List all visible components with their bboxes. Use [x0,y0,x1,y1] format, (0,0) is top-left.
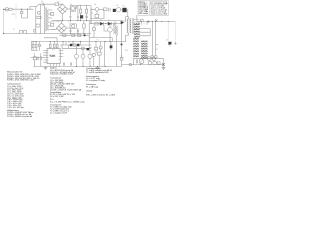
capacitor C12 [137,60,138,64]
parts list column 1 [7,70,41,118]
sub-circuit bottom wire [122,55,164,65]
resistor R12 [53,44,55,48]
wire Q7 Q8 stubs [77,46,91,66]
resistor R18b [97,52,101,55]
svg-text:T2: T2 [128,19,130,21]
svg-text:B1: B1 [58,2,60,4]
wire bridge to Q1 [68,8,71,10]
diode D12 dark [110,45,113,48]
svg-text:D7,D8 = SB360 schottky 3A: D7,D8 = SB360 schottky 3A [7,115,33,118]
diode D1 dark [113,9,116,12]
wire rung row2 [62,45,91,48]
resistor R22 [34,30,36,33]
diode D15 on bus [155,20,157,22]
wire T1 top link [52,21,62,23]
svg-text:Q2: Q2 [116,5,118,7]
transistor Q12 [152,57,156,61]
resistor R17 [94,47,97,50]
resistor R1 [80,9,82,13]
wire Q2 to T2 [121,10,128,17]
parts list column 3 [86,67,116,97]
capacitor C18 dark [84,34,86,36]
wire light rails far right [168,21,175,42]
wire y37.6 [89,38,112,42]
wire Q6 right [97,9,104,14]
transistor Q14 [153,61,157,65]
transistor Q11 [147,57,151,61]
wire vertical x91 [90,9,92,24]
resistor R19 [33,57,36,60]
ground left [44,66,48,69]
wire diode row [61,42,92,46]
wire verticals from bus [141,21,156,55]
rail vertical right [39,4,41,33]
capacitor C16 [63,63,64,66]
resistor R3 [83,24,86,28]
thermistor NTC1 [55,3,59,6]
connector wire labels column B [141,41,148,59]
resistor R7 [92,28,95,30]
capacitor C3 [70,11,72,21]
svg-text:D3: D3 [100,20,102,22]
svg-text:Weerstanden 5%:: Weerstanden 5%: [7,70,23,73]
svg-text:T3: T3 [97,40,99,42]
svg-text:C14 = 47u 50V bip: C14 = 47u 50V bip [7,107,25,109]
svg-text:F1 = 4A traag: F1 = 4A traag [86,85,98,88]
svg-text:D12,D13 = 1N5822 schott: D12,D13 = 1N5822 schott [50,73,74,76]
wire to cap [39,3,42,5]
inductor L3 line filter bottom [23,31,26,34]
wire top step [30,7,36,10]
capacitor C17 [70,63,71,66]
IC1 left pins [44,50,63,62]
LED D7 [129,63,131,65]
transistor Q10 [88,54,92,58]
resistor R21 [36,24,40,27]
transistor Q15 [99,46,102,49]
resistor R8 [157,62,160,64]
wire AC line top [12,8,33,10]
wire to NTC [44,3,55,5]
schematic tiny labels [12,1,169,52]
wire left bottom stubs [35,54,41,67]
capacitor C9 [115,22,116,26]
diode D9 dark [70,44,73,46]
wire vertical x89 [88,21,90,42]
transistor Q13 [148,61,152,65]
wire snubber row y35 [60,34,90,36]
svg-text:C1: C1 [41,1,43,3]
svg-text:Q1: Q1 [70,4,72,6]
diode D2 dark pair [122,8,126,12]
svg-text:IC1 = TL494 PWM, IC2 = LM339 c: IC1 = TL494 PWM, IC2 = LM339 comp [50,101,85,103]
svg-text:Overig:: Overig: [86,90,93,92]
wire left of IC [31,42,44,58]
capacitor C8 [95,14,99,18]
transistor Q8 [81,54,85,58]
capacitor C5 electrolytic [80,5,83,21]
wire R11-13 stubs [50,42,57,45]
resistor R16 [73,44,76,46]
diode D11 dark [87,48,90,50]
wire Q9 stubs [89,42,111,67]
diode D10 dark [77,44,80,46]
resistor R26 [120,57,123,60]
capacitor C6 [70,28,72,33]
resistor R28 [72,34,75,36]
transistor Q6 [95,8,99,12]
capacitor C15 [109,8,110,11]
transistor Q3 [108,27,113,32]
wire top right bus [137,15,175,21]
transformer T2 main [127,17,138,36]
resistor R4 [104,8,108,11]
wire T1 to bridge2 [52,28,57,29]
transistor Q7 [75,54,79,58]
chassis dashed boundary [15,4,17,20]
diode D14 on bus [148,20,150,22]
wire AC neutral bottom [4,33,45,35]
transformer T1 standby [44,4,52,33]
svg-text:R7,R8 = 470k 1/4W R21 = 4k7: R7,R8 = 470k 1/4W R21 = 4k7 [7,80,35,82]
wire mid rail [52,20,122,22]
capacitor C4 [77,5,79,21]
svg-text:Z4 = 6V2 1,3W: Z4 = 6V2 1,3W [50,96,64,98]
thermistor X mark [163,64,165,66]
resistor R25 on bus [140,19,143,21]
transformer T3 driver [114,24,118,67]
wire main rail y41.5 [32,41,126,43]
capacitor C14 [37,57,38,60]
diode D3 dark [100,22,103,25]
resistor R14 [32,44,34,48]
svg-text:L1 = ringkern 2x27t: L1 = ringkern 2x27t [50,112,68,115]
diode D8 [38,44,40,46]
capacitor C1 X-cap [20,9,27,18]
svg-text:NTC = 2R5 inrush lim S1 = 230: NTC = 2R5 inrush lim S1 = 230V [86,95,116,97]
svg-text:IC3: IC3 [68,21,71,23]
wire stub x155 jog [156,43,159,45]
capacitor C2 [42,3,44,6]
svg-text:PC VOEDING 200W: PC VOEDING 200W [151,3,168,5]
title block text [138,1,168,16]
resistor R23 [51,12,54,15]
resistor R2 [86,9,88,13]
inductor L2 line filter top [19,31,22,34]
wire Q1 to right [76,6,92,24]
title block table [138,1,168,16]
svg-text:IC1: IC1 [52,50,55,52]
bridge rectifier B1 [58,4,68,14]
junction dot x121 [121,44,123,46]
svg-text:Q6: Q6 [94,4,96,6]
svg-text:B2: B2 [57,21,59,23]
ground right [162,66,165,70]
resistor R24 [51,23,54,26]
rail vertical left [35,7,37,34]
svg-text:TL494: TL494 [50,56,57,58]
svg-text:z: z [147,13,148,15]
ground middle [96,66,100,69]
svg-text:zwart = massa GND: zwart = massa GND [151,12,168,15]
resistor R6 [95,22,98,25]
capacitor C13 [40,57,41,60]
transistor Q9 [92,53,95,56]
diode D6 dark [168,41,172,46]
sub-circuit top wire [134,57,164,59]
svg-text:D4: D4 [108,20,110,22]
svg-text:D5: D5 [123,6,125,8]
transistor Q5 standby [37,11,40,14]
wire x121 vertical [121,45,123,59]
wire to bridge [59,3,63,5]
wire x104.7 vertical [104,42,106,67]
capacitor C11 tick [174,42,176,44]
fuse F2 circle [151,56,154,59]
svg-text:T2 = ATX hoofdtrafo EI33: T2 = ATX hoofdtrafo EI33 [86,71,109,74]
capacitor C7 [77,28,79,33]
wire stub y37.8 [44,38,57,42]
capacitor C5b ticks [86,5,88,21]
svg-text:C2: C2 [13,29,15,31]
svg-text:C10: C10 [155,49,158,51]
wire top mid [91,8,95,10]
fuse F1 [9,8,12,10]
svg-text:L2 = ringkern 10 wdg: L2 = ringkern 10 wdg [86,80,105,82]
wire R7 verticals [93,25,95,38]
resistor R29 [78,34,81,36]
connector wire labels column A [133,23,140,57]
mains plug P1 [3,8,8,11]
transistor Q2 [116,8,120,12]
wire T2 left bottom [126,17,128,42]
diode D5 dark [121,21,124,24]
wire bridge2 right [67,27,71,29]
optocoupler IC3 [70,24,76,28]
IC1 TL494 [47,49,60,64]
resistor R13 [56,44,58,48]
bridge rectifier B2 [57,23,67,33]
wire AC left vertical [3,11,5,34]
resistor R27 [63,34,66,37]
svg-text:L1: L1 [143,22,145,24]
svg-text:D9: D9 [69,42,71,44]
junction dots [3,9,169,67]
resistor R20 [37,16,41,18]
transistor Q4 [139,59,144,64]
parts list column 2 [50,68,85,115]
wire bridge bottom [62,14,64,21]
resistor R11 [49,44,51,48]
IC1 top pins [50,47,57,50]
diode D4 dark [108,22,111,25]
svg-text:D6: D6 [166,40,168,42]
inductor L1 output choke taps [139,21,150,35]
wire mid row2 [91,21,126,45]
svg-text:C8: C8 [91,13,93,15]
svg-text:R26: R26 [125,50,128,52]
wire bottom bus [34,65,122,67]
resistor R15 [35,44,37,48]
fuse F3 circle [154,56,157,59]
IC1 bottom pins [50,63,59,66]
wire y18.6 [91,11,104,19]
wire row2 bottom [45,33,92,35]
wire Q3 connections [104,25,110,41]
wire R3 verticals [83,21,85,34]
switch S1 [36,5,39,7]
resistor R16b [82,47,85,49]
transistor Q1 [70,6,75,12]
